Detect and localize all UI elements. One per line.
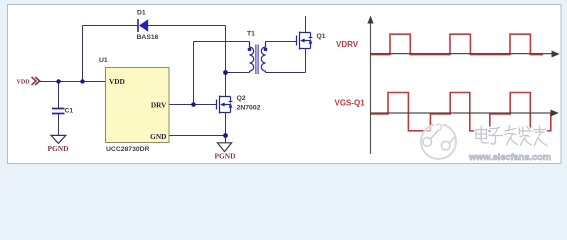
node DRV junction bbox=[191, 102, 196, 107]
watermark chinese text 电子发烧友 bbox=[476, 126, 547, 146]
svg-text:GND: GND bbox=[150, 132, 166, 141]
node GND junction bbox=[223, 133, 228, 138]
white content card bbox=[8, 5, 562, 164]
svg-text:VDD: VDD bbox=[17, 80, 31, 86]
svg-text:www.elecfans.com: www.elecfans.com bbox=[468, 152, 551, 162]
wire GND stub bbox=[169, 135, 226, 137]
wire top left of D1 bbox=[83, 25, 138, 27]
svg-text:Q2: Q2 bbox=[237, 95, 246, 102]
wire DRV stub bbox=[169, 104, 216, 106]
ground PGND right symbol bbox=[217, 143, 231, 152]
wire vertical drain bus bbox=[225, 26, 227, 97]
wire primary top lead bbox=[194, 41, 250, 43]
ground PGND left symbol bbox=[51, 135, 66, 143]
wire C1 branch upper bbox=[58, 82, 60, 109]
wire C1 branch lower bbox=[58, 114, 60, 136]
svg-text:BAS16: BAS16 bbox=[137, 34, 159, 41]
wire Q1 drain up bbox=[305, 16, 307, 32]
svg-text:UCC28730DR: UCC28730DR bbox=[106, 146, 150, 153]
axis vertical bbox=[370, 22, 372, 154]
wire Q1 source down bbox=[305, 49, 307, 73]
svg-text:2N7002: 2N7002 bbox=[237, 105, 261, 112]
svg-text:PGND: PGND bbox=[215, 151, 236, 160]
svg-text:U1: U1 bbox=[99, 57, 108, 64]
IC U1 UCC28730DR controller body bbox=[106, 68, 170, 143]
svg-text:VDRV: VDRV bbox=[336, 40, 359, 49]
svg-text:T1: T1 bbox=[247, 31, 255, 38]
capacitor C1 bbox=[52, 109, 65, 114]
wire top right of D1 bbox=[148, 25, 226, 27]
axis VGS horizontal bbox=[371, 112, 552, 114]
svg-text:VGS-Q1: VGS-Q1 bbox=[335, 98, 366, 107]
waveform VDRV bbox=[371, 34, 544, 54]
wire secondary bottom lead bbox=[266, 72, 306, 74]
transistor Q2 2N7002 bbox=[217, 96, 233, 114]
svg-text:VDD: VDD bbox=[109, 77, 125, 86]
svg-text:DRV: DRV bbox=[151, 101, 167, 110]
svg-text:D1: D1 bbox=[137, 10, 146, 17]
wire DRV to primary top bbox=[193, 42, 195, 105]
wire primary bottom lead bbox=[226, 72, 250, 74]
diode D1 BAS16 bbox=[137, 10, 159, 41]
wire secondary top lead bbox=[266, 41, 297, 43]
logo circle bbox=[421, 124, 456, 159]
page background bbox=[0, 0, 567, 167]
node primary/drain junction bbox=[223, 70, 228, 75]
wire VDD rail bbox=[40, 81, 106, 83]
wire Q2 source down bbox=[225, 113, 227, 143]
transformer T1 bbox=[250, 42, 266, 75]
axis VDRV horizontal bbox=[371, 53, 553, 55]
svg-text:C1: C1 bbox=[65, 108, 74, 115]
node VDD/D1 junction bbox=[80, 79, 84, 83]
svg-text:PGND: PGND bbox=[48, 144, 69, 153]
node VDD input port chevron bbox=[32, 77, 40, 85]
transistor Q1 bbox=[297, 32, 313, 50]
wire vertical to D1 bbox=[82, 26, 84, 82]
svg-text:Q1: Q1 bbox=[317, 33, 326, 40]
node VDD/C1 junction bbox=[56, 79, 60, 83]
waveform VGS-Q1 bbox=[371, 93, 556, 131]
